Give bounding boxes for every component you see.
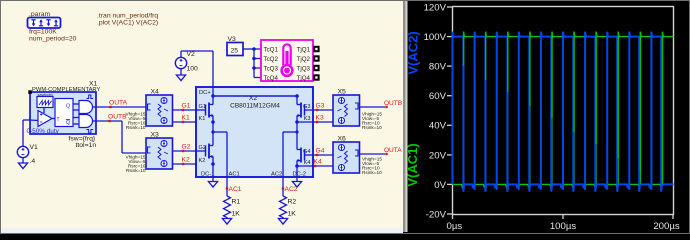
svg-text:K1: K1 bbox=[199, 116, 206, 122]
svg-text:G3: G3 bbox=[316, 103, 325, 110]
svg-text:OUTA: OUTA bbox=[109, 100, 128, 107]
gate driver X5 bbox=[333, 95, 360, 126]
svg-text:.tran num_period/frq: .tran num_period/frq bbox=[97, 13, 158, 20]
svg-text:V1: V1 bbox=[30, 144, 39, 151]
svg-text:K4: K4 bbox=[314, 159, 322, 166]
ground DC-2 bbox=[292, 182, 301, 188]
TjQ pin labels bbox=[297, 46, 311, 82]
svg-text:X3: X3 bbox=[151, 132, 160, 139]
transistor Q1 bbox=[196, 96, 213, 122]
wire V2 to DC+ bbox=[181, 50, 213, 52]
svg-text:TcQ3: TcQ3 bbox=[264, 65, 279, 72]
x axis ticks and labels bbox=[447, 215, 680, 233]
svg-text:1K: 1K bbox=[288, 211, 297, 218]
gate driver X3 bbox=[146, 138, 173, 169]
trace V(AC1) green vertical highlights bbox=[464, 32, 663, 183]
X1 origin marker bbox=[28, 90, 32, 94]
wire K3 bbox=[297, 121, 333, 123]
net label OUTA right bbox=[384, 147, 402, 155]
wire DC+ drop bbox=[212, 51, 214, 96]
svg-text:60V: 60V bbox=[429, 91, 447, 102]
transistor Q4 bbox=[297, 132, 313, 166]
voltage source V3 bbox=[227, 36, 243, 56]
PWM generator X1 bbox=[30, 92, 96, 134]
svg-text:X5: X5 bbox=[338, 89, 347, 96]
svg-text:DC-2: DC-2 bbox=[293, 172, 307, 178]
svg-text:V2: V2 bbox=[187, 51, 196, 58]
svg-text:G2: G2 bbox=[182, 144, 191, 151]
voltage source V2 bbox=[175, 51, 198, 75]
svg-text:1K: 1K bbox=[232, 211, 241, 218]
svg-text:40V: 40V bbox=[429, 121, 447, 132]
DC+ rail bbox=[213, 95, 297, 97]
transistor Q3 bbox=[297, 96, 313, 122]
svg-text:0µs: 0µs bbox=[447, 221, 463, 232]
svg-text:K4: K4 bbox=[304, 160, 311, 166]
schematic canvas bbox=[1, 1, 403, 232]
svg-text:TjQ1: TjQ1 bbox=[297, 46, 311, 53]
svg-text:AC2: AC2 bbox=[271, 172, 282, 178]
trace V(AC2) blue bbox=[453, 32, 674, 192]
ground DC-1 bbox=[208, 182, 217, 188]
transistor Q2 bbox=[196, 132, 213, 164]
net label K2 bbox=[182, 157, 190, 166]
ground for V2 bbox=[176, 75, 185, 81]
svg-text:120V: 120V bbox=[424, 2, 447, 13]
net label AC2 bbox=[282, 186, 298, 193]
gate driver X6 bbox=[333, 142, 360, 173]
net label AC1 bbox=[226, 186, 242, 193]
svg-text:AC1: AC1 bbox=[229, 186, 242, 193]
y axis ticks and labels bbox=[424, 2, 453, 220]
Tc bus wire bbox=[254, 49, 261, 78]
wire DC-2 drop bbox=[296, 166, 298, 182]
svg-text:.plot V(AC1) V(AC2): .plot V(AC1) V(AC2) bbox=[97, 20, 158, 27]
power module X2 bbox=[196, 87, 313, 177]
wire G3 bbox=[313, 109, 333, 111]
TcQ pin labels bbox=[264, 46, 279, 82]
wire V3 to Tc bus bbox=[243, 48, 254, 50]
thermal network block bbox=[261, 40, 313, 81]
svg-text:V(AC2): V(AC2) bbox=[406, 31, 421, 74]
svg-text:0V: 0V bbox=[434, 180, 446, 191]
svg-text:G1: G1 bbox=[182, 103, 191, 110]
svg-text:CB8011M12GM4: CB8011M12GM4 bbox=[230, 103, 280, 110]
net label G3 bbox=[316, 103, 325, 112]
X1 internal wires bbox=[30, 104, 96, 124]
ground R2 bbox=[278, 219, 287, 225]
svg-text:R1: R1 bbox=[232, 199, 241, 206]
net label K3 bbox=[316, 115, 324, 124]
svg-text:200µs: 200µs bbox=[653, 221, 680, 232]
svg-text:TjQ4: TjQ4 bbox=[297, 75, 311, 82]
svg-text:-20V: -20V bbox=[426, 209, 447, 220]
svg-text:100: 100 bbox=[187, 66, 199, 73]
wire K2 bbox=[173, 163, 214, 165]
net label OUTB bbox=[108, 114, 127, 123]
svg-text:.4: .4 bbox=[30, 158, 36, 165]
svg-text:X6: X6 bbox=[338, 136, 347, 143]
svg-text:G4: G4 bbox=[316, 148, 325, 155]
param symbol bbox=[28, 18, 61, 29]
svg-text:ttol=1n: ttol=1n bbox=[76, 142, 97, 149]
svg-text:TcQ2: TcQ2 bbox=[264, 56, 279, 63]
output gates inside X1 bbox=[79, 95, 93, 133]
svg-text:R2: R2 bbox=[288, 199, 297, 206]
svg-text:100µs: 100µs bbox=[550, 221, 577, 232]
wire V1 to X1 input bbox=[23, 119, 30, 121]
wire OUTB X1 to X3 bbox=[96, 121, 146, 153]
svg-text:TjQ2: TjQ2 bbox=[297, 56, 311, 63]
svg-text:20V: 20V bbox=[429, 150, 447, 161]
svg-text:TjQ3: TjQ3 bbox=[297, 65, 311, 72]
waveform plot frame bbox=[453, 7, 674, 215]
voltage source V1 bbox=[17, 120, 38, 165]
svg-text:V3: V3 bbox=[228, 36, 237, 43]
splitter bar bbox=[403, 1, 405, 232]
junction dots on Tc bus bbox=[252, 47, 256, 70]
svg-text:AC2: AC2 bbox=[285, 186, 298, 193]
TjQ port markers bbox=[313, 46, 319, 81]
svg-text:Q: Q bbox=[66, 104, 70, 110]
svg-text:100V: 100V bbox=[424, 32, 447, 43]
svg-text:V(AC1): V(AC1) bbox=[405, 143, 420, 186]
gate driver X4 bbox=[146, 95, 173, 126]
X5 parameter text bbox=[362, 112, 382, 131]
svg-text:sawtooth: sawtooth bbox=[38, 93, 53, 97]
net label OUTB right bbox=[384, 100, 402, 108]
ground R1 bbox=[222, 219, 231, 225]
wire DC-1 drop bbox=[212, 164, 214, 182]
X4 parameter text bbox=[126, 112, 146, 131]
wire OUTA X1 to X4 bbox=[96, 106, 146, 108]
svg-text:Rsink=10: Rsink=10 bbox=[362, 125, 382, 130]
X2 pin labels bbox=[199, 90, 311, 178]
svg-text:TcQ1: TcQ1 bbox=[264, 46, 279, 53]
wire AC1 branch bbox=[213, 122, 227, 196]
svg-text:DC+: DC+ bbox=[199, 90, 211, 96]
wire K1 bbox=[173, 121, 214, 123]
wire AC2 branch bbox=[283, 122, 297, 196]
X2 title labels bbox=[230, 95, 280, 110]
svg-text:K3: K3 bbox=[304, 116, 311, 122]
wire X5 input bbox=[360, 106, 386, 108]
net label K4 bbox=[314, 159, 322, 168]
thermometer icon bbox=[282, 44, 293, 76]
svg-text:80V: 80V bbox=[429, 62, 447, 73]
svg-text:Rsink=10: Rsink=10 bbox=[126, 125, 146, 130]
svg-text:AC1: AC1 bbox=[229, 172, 240, 178]
svg-text:TcQ4: TcQ4 bbox=[264, 75, 279, 82]
svg-text:frq=100K: frq=100K bbox=[29, 29, 57, 36]
svg-text:OUTB: OUTB bbox=[108, 114, 127, 121]
svg-text:Rsink=10: Rsink=10 bbox=[362, 170, 382, 175]
junction dots X2 bbox=[211, 94, 299, 168]
status strip bottom-left bbox=[1, 229, 403, 234]
svg-text:K3: K3 bbox=[316, 115, 324, 122]
svg-text:X4: X4 bbox=[151, 89, 160, 96]
resistor R1 bbox=[224, 196, 241, 219]
svg-text:25: 25 bbox=[231, 48, 239, 55]
resistor R2 bbox=[280, 196, 297, 219]
svg-text:K2: K2 bbox=[199, 158, 206, 164]
net label K1 bbox=[182, 115, 190, 124]
X6 parameter text bbox=[362, 157, 382, 176]
svg-text:Rsink=10: Rsink=10 bbox=[126, 168, 146, 173]
ground for V1 bbox=[18, 163, 27, 169]
net label G4 bbox=[316, 148, 325, 157]
wire G4 bbox=[313, 154, 333, 156]
svg-text:K2: K2 bbox=[182, 157, 190, 164]
X3 parameter text bbox=[126, 155, 146, 174]
flip-flop inside X1 bbox=[55, 99, 73, 127]
wire K4 bbox=[297, 165, 333, 167]
wire X6 input bbox=[360, 153, 386, 155]
svg-text:num_period=20: num_period=20 bbox=[29, 36, 77, 43]
wire G2 bbox=[173, 150, 206, 152]
comparator inside X1 bbox=[38, 111, 52, 127]
svg-text:Q: Q bbox=[66, 120, 70, 126]
svg-text:0-50% duty: 0-50% duty bbox=[27, 128, 60, 135]
svg-text:K1: K1 bbox=[182, 115, 190, 122]
net label G2 bbox=[182, 144, 191, 153]
net label G1 bbox=[182, 103, 191, 112]
net label OUTA bbox=[109, 100, 128, 109]
svg-text:T: T bbox=[57, 117, 60, 123]
wire G1 bbox=[173, 109, 206, 111]
trace V(AC1) green bbox=[453, 32, 674, 187]
sawtooth source inside X1 bbox=[37, 93, 53, 108]
